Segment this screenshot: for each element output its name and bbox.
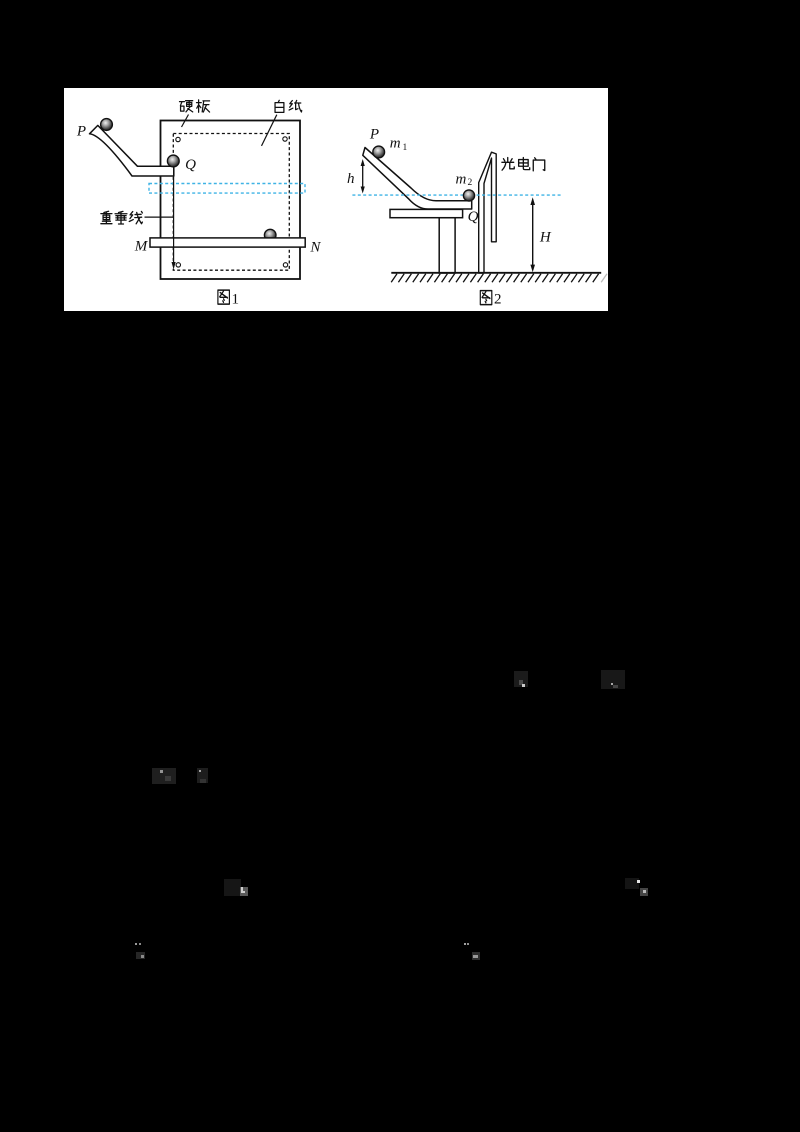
ball P fig1 <box>101 118 113 130</box>
svg-text:N: N <box>309 239 321 255</box>
pin bottom-right <box>283 262 287 266</box>
ramp track fig2 <box>363 147 472 209</box>
ground hatching <box>391 273 598 282</box>
residue mark group 6 <box>625 878 639 889</box>
pin top-left <box>176 137 180 141</box>
ball m2 fig2 <box>463 189 474 200</box>
H arrow <box>532 201 534 269</box>
photogate frame <box>479 152 497 273</box>
label 白纸 <box>275 100 284 112</box>
svg-text:Q: Q <box>468 209 479 225</box>
svg-text:H: H <box>539 229 552 245</box>
plumb line <box>173 161 175 264</box>
residue mark group 7 <box>135 943 137 945</box>
svg-text:2: 2 <box>494 291 502 307</box>
label 硬板 <box>180 100 193 111</box>
leader line 白纸 <box>262 114 277 145</box>
svg-text:Q: Q <box>185 157 196 173</box>
residue mark group 3 <box>152 768 176 784</box>
leader line 重垂线 <box>145 216 174 218</box>
white figure panel <box>64 88 608 312</box>
h arrow <box>362 163 364 190</box>
svg-text:M: M <box>134 238 149 254</box>
pin bottom-left <box>176 262 180 266</box>
residue mark group 2 <box>601 670 625 689</box>
residue mark group 8 <box>464 943 466 945</box>
tabletop fig2 <box>390 209 463 217</box>
svg-text:1: 1 <box>232 291 240 307</box>
ball on bar fig1 <box>264 229 276 241</box>
svg-text:P: P <box>369 126 379 142</box>
white paper 白纸 dashed rectangle <box>173 133 289 270</box>
cyan dashed photogate band fig1 <box>149 183 305 193</box>
svg-text:m: m <box>456 171 467 187</box>
residue mark group 5 <box>224 879 241 896</box>
plumb arrowhead <box>172 262 176 270</box>
ramp track fig1 <box>90 125 174 176</box>
residue mark group 4 <box>197 768 208 783</box>
svg-text:m: m <box>390 135 401 151</box>
ground line fig2 <box>391 271 601 273</box>
board 硬板 rectangle <box>161 120 301 279</box>
table leg fig2 <box>439 217 455 272</box>
cyan dashed line fig2 <box>352 194 562 196</box>
caption 图1 <box>218 290 230 304</box>
pin top-right <box>283 136 287 140</box>
svg-text:2: 2 <box>468 178 473 188</box>
svg-text:P: P <box>76 123 86 139</box>
bar MN <box>150 237 305 246</box>
label 重垂线 <box>101 211 112 223</box>
svg-text:h: h <box>347 171 355 187</box>
residue mark group 1 <box>514 671 528 687</box>
leader line 硬板 <box>182 114 189 127</box>
svg-text:1: 1 <box>403 143 408 153</box>
ball Q fig1 <box>167 155 179 167</box>
label 光电门 <box>502 157 514 170</box>
ball m1 fig2 <box>373 146 385 158</box>
faint cut hatch <box>601 273 607 282</box>
caption 图2 <box>480 290 492 304</box>
